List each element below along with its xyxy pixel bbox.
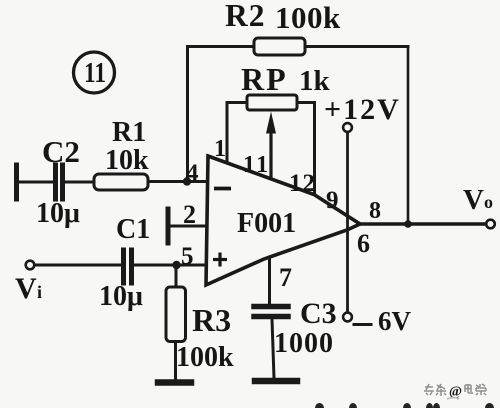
- svg-text:11: 11: [84, 58, 106, 89]
- svg-text:i: i: [37, 282, 42, 302]
- svg-text:V: V: [15, 272, 37, 305]
- svg-text:+12V: +12V: [324, 93, 401, 126]
- svg-text:F001: F001: [237, 208, 296, 239]
- svg-text:9: 9: [326, 187, 339, 214]
- svg-text:2: 2: [183, 200, 196, 229]
- svg-text:V: V: [463, 184, 484, 216]
- svg-text:7: 7: [279, 263, 292, 292]
- svg-text:R2: R2: [225, 0, 266, 33]
- svg-text:RP: RP: [241, 61, 288, 97]
- svg-text:C1: C1: [116, 214, 150, 245]
- svg-text:R1: R1: [112, 117, 146, 148]
- svg-text:10μ: 10μ: [99, 281, 143, 312]
- svg-text:C3: C3: [300, 297, 337, 330]
- svg-text:6: 6: [357, 229, 370, 258]
- svg-text:4: 4: [186, 160, 199, 187]
- svg-text:100k: 100k: [176, 342, 234, 373]
- svg-text:R3: R3: [192, 302, 231, 338]
- svg-text:5: 5: [181, 243, 194, 270]
- svg-text:1000: 1000: [274, 328, 334, 359]
- svg-text:10μ: 10μ: [36, 198, 80, 229]
- svg-text:o: o: [484, 192, 493, 212]
- svg-text:100k: 100k: [275, 0, 341, 35]
- svg-text:C2: C2: [42, 134, 80, 169]
- svg-text:8: 8: [369, 198, 381, 224]
- svg-text:11: 11: [243, 152, 271, 178]
- svg-text:12: 12: [289, 170, 316, 197]
- svg-text:1: 1: [214, 136, 226, 162]
- svg-text:6V: 6V: [378, 306, 412, 336]
- svg-text:10k: 10k: [105, 145, 149, 176]
